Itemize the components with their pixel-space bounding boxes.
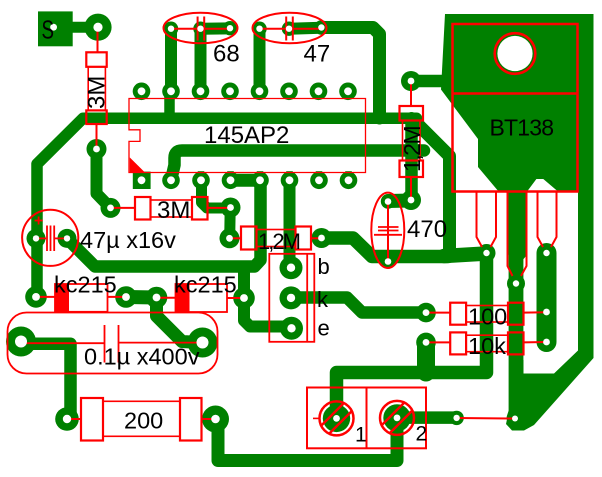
pad kc215-1 left bbox=[25, 286, 47, 308]
wire link 68 left pad down to IC pin2 top bbox=[165, 29, 177, 92]
IC U1 pad stubs bottom row bbox=[168, 171, 352, 180]
svg-text:3M: 3M bbox=[84, 76, 111, 109]
wire BT138 right copper bar and diagonal to pad above terminal bbox=[578, 22, 594, 352]
pad kc215-2 left bbox=[146, 287, 168, 309]
terminal X1-1 silk circle and hatches bbox=[320, 401, 354, 435]
wire link 47 left pad down to IC pin5 top bbox=[254, 29, 266, 92]
wire node pad down to 1.2M-h left pad bbox=[224, 208, 236, 239]
svg-text:145AP2: 145AP2 bbox=[204, 122, 289, 149]
holes 470 bbox=[385, 198, 392, 205]
pads link 68 bbox=[164, 21, 237, 36]
svg-text:kc215: kc215 bbox=[174, 272, 237, 298]
pad U2 pin2 bbox=[507, 275, 525, 293]
pad 470 bottom bbox=[381, 254, 395, 268]
wire BT138 pin3 pad chain down bbox=[537, 253, 557, 342]
terminal block X1 silk bbox=[307, 388, 426, 449]
diode D1 kc215 silk body with cathode fill bbox=[36, 284, 126, 312]
pad 1.2M-v top bbox=[401, 71, 421, 91]
holes 47u bbox=[33, 235, 39, 241]
pad node (230.5,207.5) bbox=[221, 198, 241, 218]
svg-text:b: b bbox=[318, 254, 330, 279]
IC U1 pin1 triangle marker bbox=[130, 157, 145, 172]
pad 100 left bbox=[416, 303, 436, 323]
resistor R5 200 silk big bbox=[67, 398, 216, 441]
wire trace B: IC pin2 bottom to gate junction bbox=[171, 151, 424, 181]
holes Q1 b k e bbox=[287, 264, 295, 272]
pad node (110.5,208) bbox=[101, 198, 121, 218]
wire terminal 1 up along power trace to BT138 pin1 band bbox=[337, 253, 487, 418]
pad C3 left big bbox=[6, 327, 36, 357]
resistor R1 3M vertical silk bbox=[86, 29, 106, 147]
svg-text:47: 47 bbox=[304, 41, 331, 68]
wire 470 top pad bar to 1.2M-v bottom pad bbox=[388, 194, 411, 209]
holes U2 pads bbox=[483, 250, 489, 256]
svg-text:2: 2 bbox=[416, 423, 428, 446]
svg-text:0.1µ x400v: 0.1µ x400v bbox=[84, 344, 200, 370]
holes bottom link pads bbox=[453, 415, 459, 421]
pad 1.2M-v bottom bbox=[401, 190, 421, 210]
link F1 68 silk ellipse and leads bbox=[164, 13, 238, 44]
wire link 68 bar mid to right bbox=[201, 22, 231, 34]
wire S square pad to S round pad bbox=[70, 22, 98, 33]
holes link 68 bbox=[168, 26, 174, 32]
wire IC pin6 bottom down to transistor b pad bbox=[284, 180, 296, 267]
pad 1.2M right bbox=[312, 228, 332, 248]
hole U2 mounting bbox=[497, 36, 532, 71]
svg-text:1,2M: 1,2M bbox=[399, 127, 425, 172]
holes C3 big pads bbox=[15, 336, 27, 348]
wire kc215 series link pad to pad bbox=[126, 290, 157, 305]
svg-text:S: S bbox=[42, 14, 54, 44]
svg-text:1,2M: 1,2M bbox=[258, 229, 300, 254]
wire kc215 right pad riser and elbow to transistor e pad bbox=[244, 267, 292, 327]
hole S round bbox=[93, 23, 102, 32]
pad Q1 k bbox=[280, 286, 303, 309]
resistor R2 3M horizontal silk bbox=[111, 197, 231, 220]
wire 1.2M right pad through 470 bottom pad to BT138 pin1 bbox=[322, 238, 449, 257]
pad 47u right bbox=[58, 229, 77, 248]
svg-text:BT138: BT138 bbox=[490, 115, 554, 141]
wire silk jumper link at bottom right bbox=[457, 417, 515, 420]
pad 10k left bbox=[416, 333, 436, 353]
capacitor C2 470 silk ellipse and plates bbox=[371, 193, 404, 268]
pad Q1 b bbox=[280, 256, 303, 279]
IC U1 145AP2 silk outline with notch bbox=[129, 99, 366, 173]
wire gate horizontal into BT138 pin1 pad bbox=[444, 254, 487, 257]
wire BT138 middle leg trace down to pad above terminal bbox=[514, 252, 516, 418]
wire 0.1u left big pad over and down to 200 left pad bbox=[21, 344, 71, 419]
svg-text:100: 100 bbox=[468, 304, 507, 330]
wire trace A: main net from left rail across IC to 1.2M drop bbox=[37, 118, 417, 297]
holes IC bottom row bbox=[138, 176, 146, 184]
wire IC pin2 top stub to trace A bbox=[164, 91, 175, 114]
pad 200 left bbox=[55, 407, 79, 431]
svg-text:3M: 3M bbox=[157, 197, 190, 224]
svg-text:1: 1 bbox=[355, 424, 367, 447]
wire BT138 middle leg wide stub bbox=[508, 190, 527, 252]
pad U2 pin1 gate bbox=[478, 244, 496, 262]
pad Q1 e bbox=[280, 317, 303, 340]
link F2 47 silk ellipse and leads bbox=[253, 13, 327, 44]
IC U1 bottom row pads with square pin1 bbox=[133, 172, 358, 190]
IC U1 pad stubs top row bbox=[138, 91, 351, 99]
pad node above terminal diag bbox=[508, 411, 522, 425]
holes kc215 bbox=[32, 293, 40, 301]
pad node 10k right bbox=[537, 333, 556, 352]
svg-text:e: e bbox=[318, 315, 330, 340]
resistor R7 10k silk bbox=[426, 332, 547, 354]
holes 100 10k left bbox=[423, 309, 430, 316]
pad terminal 2 disc bbox=[383, 404, 410, 431]
pad link right small bbox=[449, 411, 463, 425]
resistor R3 1.2M horizontal silk bbox=[230, 227, 322, 250]
wire pad(96.5,149) S-curve down to 3M-h left pad bbox=[97, 149, 111, 208]
pad 470 top bbox=[381, 194, 395, 208]
pad node (96.5,149) bbox=[87, 139, 107, 159]
capacitor C3 0.1u silk rounded box and plates bbox=[8, 313, 218, 374]
capacitor C1 47u silk circle, plus, plates bbox=[22, 210, 78, 266]
wire 200 right pad down along bottom and up to terminal 2 bbox=[218, 418, 397, 461]
triac U2 BT138 silk outline bbox=[453, 24, 578, 192]
transistor Q1 silk box bbox=[269, 254, 314, 342]
holes terminals bbox=[333, 415, 340, 422]
wire BT138 tab pad bar into body bbox=[411, 75, 448, 88]
wire 47 right pad over and down to trace A bbox=[321, 28, 379, 119]
wire gate diagonal from junction down to gate rail bbox=[412, 118, 450, 251]
wire trace A drop to 1.2M lower pad bbox=[405, 118, 418, 200]
resistor R4 1.2M vertical silk bbox=[400, 83, 424, 198]
wire 47u right pad diagonal to mid horizontal up to IC pin5 bbox=[67, 180, 261, 266]
svg-text:200: 200 bbox=[124, 408, 163, 434]
holes IC top row bbox=[138, 87, 146, 95]
wire chevron fill bar-to-pad above terminal bbox=[506, 351, 594, 431]
pads link 47 bbox=[252, 20, 328, 36]
pad kc215-2 right bbox=[233, 287, 255, 309]
pad terminal 1 disc bbox=[323, 405, 350, 432]
svg-text:10k: 10k bbox=[468, 333, 506, 359]
triac U2 BT138 copper body polygon bbox=[441, 14, 594, 192]
wire IC pin3 bottom elbow right to pad node bbox=[202, 180, 231, 208]
wire IC pin4 to pin5 bottom bar bbox=[231, 174, 261, 187]
wire kc215 junction down diagonal into 0.1u right big pad bbox=[157, 298, 201, 343]
terminal X1-2 silk circle and hatches bbox=[380, 401, 414, 435]
wire terminal 2 to link pad right bbox=[397, 411, 457, 424]
resistor R6 100 silk bbox=[426, 303, 547, 325]
svg-text:47µ x16v: 47µ x16v bbox=[80, 227, 176, 253]
diode D2 kc215 silk body with cathode fill bbox=[157, 284, 245, 312]
wire link 68 mid pad down to IC pin3 top bbox=[195, 29, 207, 92]
pad S square bbox=[38, 11, 73, 46]
wire 10k left pad stub down to power trace bbox=[417, 342, 435, 372]
pad U2 pin3 bbox=[538, 244, 556, 262]
svg-text:kc215: kc215 bbox=[54, 272, 117, 298]
wire k pad to 100 resistor left pad bbox=[292, 298, 427, 313]
pad C3 right big bbox=[188, 328, 218, 358]
holes 200 bbox=[63, 415, 71, 423]
pad S round bbox=[84, 14, 111, 41]
wire link 47 bar mid to right bbox=[289, 22, 321, 35]
pad node (229.5,238.3) bbox=[220, 228, 240, 248]
pad kc215-1 right bbox=[115, 286, 137, 308]
IC U1 top row pads bbox=[133, 83, 357, 101]
holes node pads bbox=[93, 146, 100, 153]
triac U2 leg silk lines bbox=[477, 192, 557, 276]
pad node 100 right bbox=[537, 303, 556, 322]
svg-text:470: 470 bbox=[407, 216, 447, 243]
holes link 47 bbox=[256, 26, 262, 32]
pad 200 right bbox=[202, 406, 229, 433]
svg-text:68: 68 bbox=[213, 41, 240, 68]
hole S square bbox=[50, 24, 57, 31]
svg-text:k: k bbox=[317, 287, 329, 312]
pad 47u left bbox=[27, 229, 46, 248]
